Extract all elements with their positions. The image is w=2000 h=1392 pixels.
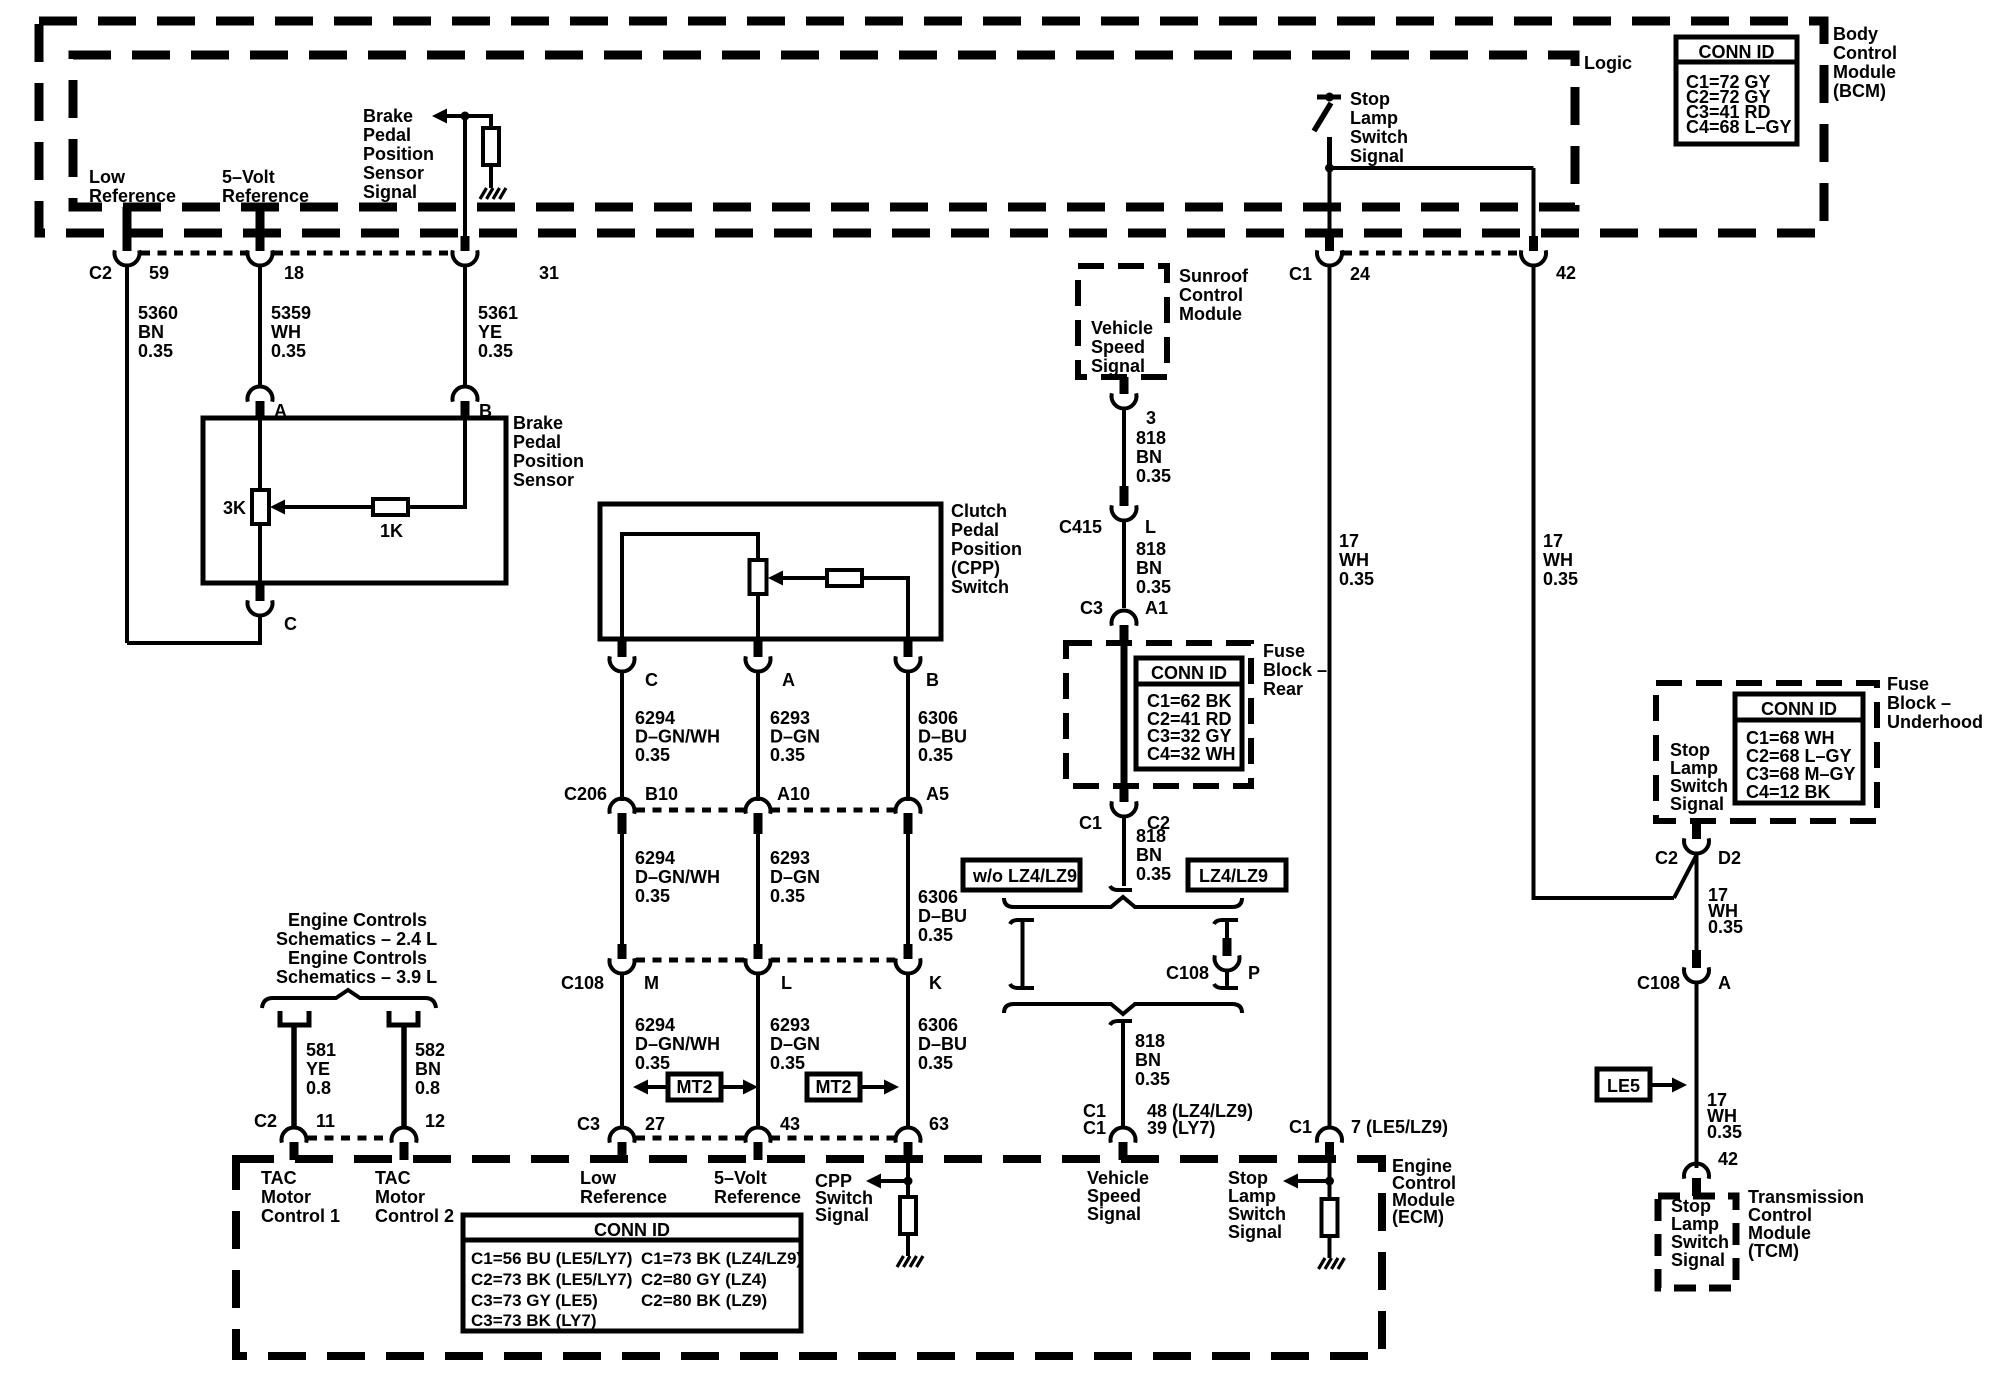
svg-text:1K: 1K — [380, 521, 403, 541]
svg-text:C1=68 WH: C1=68 WH — [1746, 728, 1835, 748]
wire: pin A to 3K pot top — [258, 418, 262, 490]
connector: BPP sensor pin B — [461, 401, 470, 418]
arrow: CPP Switch Signal (points left) — [866, 1174, 881, 1189]
module box: Engine Control Module (ECM), dashed outline — [236, 1159, 1382, 1356]
connector: CPP switch pin B — [904, 639, 913, 657]
svg-text:818: 818 — [1135, 1031, 1165, 1051]
svg-text:6294: 6294 — [635, 848, 675, 868]
svg-text:Fuse: Fuse — [1263, 641, 1305, 661]
svg-text:M: M — [644, 973, 659, 993]
wire end serif above option brace — [1110, 886, 1132, 890]
svg-text:Reference: Reference — [714, 1187, 801, 1207]
resistor: CPP switch internal — [827, 570, 862, 586]
wire: branch down to BCM pin 42 — [1532, 168, 1536, 238]
svg-text:Logic: Logic — [1584, 53, 1632, 73]
svg-text:Position: Position — [513, 451, 584, 471]
connector: TCM pin 42 — [1692, 1178, 1701, 1196]
connector line: C108 (dotted) — [636, 958, 745, 963]
wire: circuit 17 WH from BCM 42, elbow — [1534, 265, 1675, 898]
svg-text:5359: 5359 — [271, 303, 311, 323]
module box: Transmission Control Module (TCM), dashed outline — [1658, 1196, 1736, 1288]
svg-text:Module: Module — [1833, 62, 1896, 82]
svg-text:Rear: Rear — [1263, 679, 1303, 699]
connector line: ECM C3 (dotted) 2 — [771, 1136, 895, 1141]
svg-text:0.35: 0.35 — [1708, 917, 1743, 937]
svg-text:(BCM): (BCM) — [1833, 81, 1886, 101]
wire: 3K pot bottom to pin C — [258, 524, 262, 583]
svg-text:Brake: Brake — [363, 106, 413, 126]
svg-text:43: 43 — [780, 1114, 800, 1134]
connector line: BCM C2 (dotted) seg2 — [274, 251, 451, 256]
connector line: C206 (dotted) — [636, 808, 745, 813]
svg-text:63: 63 — [929, 1114, 949, 1134]
svg-text:0.35: 0.35 — [770, 745, 805, 765]
svg-text:0.35: 0.35 — [1136, 577, 1171, 597]
svg-text:C2=80 GY (LZ4): C2=80 GY (LZ4) — [641, 1270, 767, 1289]
svg-text:LZ4/LZ9: LZ4/LZ9 — [1199, 866, 1268, 886]
svg-text:D–GN/WH: D–GN/WH — [635, 727, 720, 747]
svg-text:(TCM): (TCM) — [1748, 1241, 1799, 1261]
brace: schematics reference selector — [262, 990, 436, 1008]
svg-text:Signal: Signal — [363, 182, 417, 202]
svg-text:0.35: 0.35 — [1707, 1122, 1742, 1142]
svg-text:Brake: Brake — [513, 413, 563, 433]
svg-text:42: 42 — [1718, 1149, 1738, 1169]
svg-text:LE5: LE5 — [1607, 1076, 1640, 1096]
svg-text:Body: Body — [1833, 24, 1878, 44]
svg-text:Switch: Switch — [1670, 776, 1728, 796]
svg-text:C1=56 BU (LE5/LY7): C1=56 BU (LE5/LY7) — [471, 1249, 632, 1268]
wire: circuit 6293 seg2 — [756, 834, 760, 949]
svg-text:Position: Position — [951, 539, 1022, 559]
svg-text:5361: 5361 — [478, 303, 518, 323]
svg-text:Clutch: Clutch — [951, 501, 1007, 521]
svg-text:3K: 3K — [223, 498, 246, 518]
svg-text:Stop: Stop — [1228, 1168, 1268, 1188]
svg-text:0.35: 0.35 — [770, 886, 805, 906]
wire: CPP resistor to pin B — [862, 578, 908, 639]
svg-text:5–Volt: 5–Volt — [222, 167, 275, 187]
svg-text:6306: 6306 — [918, 708, 958, 728]
svg-text:D–BU: D–BU — [918, 727, 967, 747]
wire: CPP signal node — [881, 1179, 908, 1183]
svg-text:MT2: MT2 — [677, 1077, 713, 1097]
svg-text:D–BU: D–BU — [918, 1034, 967, 1054]
svg-text:818: 818 — [1136, 826, 1166, 846]
potentiometer: CPP switch element — [750, 560, 767, 594]
connector: BCM C2 pin 31 — [461, 236, 470, 251]
svg-text:WH: WH — [1543, 550, 1573, 570]
svg-text:CONN ID: CONN ID — [1761, 699, 1837, 719]
svg-text:Signal: Signal — [1228, 1222, 1282, 1242]
module box: Fuse Block - Underhood, dashed outline — [1656, 683, 1877, 821]
potentiometer 3K: Brake Pedal Position Sensor — [252, 490, 269, 524]
svg-text:Control 2: Control 2 — [375, 1206, 454, 1226]
svg-text:Lamp: Lamp — [1671, 1214, 1719, 1234]
wire: splice diagonal up to C2/D2 — [1674, 854, 1697, 898]
resistor: ECM internal (stop lamp signal) — [1322, 1199, 1338, 1236]
svg-text:C415: C415 — [1059, 517, 1102, 537]
wire: circuit 582 BN (TAC motor control 2) — [401, 1025, 407, 1129]
table: Fuse Block - Underhood CONN ID — [1735, 694, 1863, 803]
wire: through Fuse Block - Rear — [1121, 643, 1128, 786]
svg-text:17: 17 — [1543, 531, 1563, 551]
svg-text:818: 818 — [1136, 539, 1166, 559]
svg-text:D–BU: D–BU — [918, 906, 967, 926]
svg-text:Sensor: Sensor — [363, 163, 424, 183]
connector: C108 pin A — [1692, 950, 1701, 968]
tag box: w/o LZ4/LZ9 — [963, 860, 1080, 890]
svg-text:D–GN/WH: D–GN/WH — [635, 867, 720, 887]
svg-text:WH: WH — [1339, 550, 1369, 570]
svg-text:Signal: Signal — [1671, 1250, 1725, 1270]
svg-text:6294: 6294 — [635, 1015, 675, 1035]
svg-text:Pedal: Pedal — [513, 432, 561, 452]
svg-text:0.35: 0.35 — [918, 1053, 953, 1073]
svg-text:C3=73 BK (LY7): C3=73 BK (LY7) — [471, 1311, 597, 1330]
svg-text:Module: Module — [1748, 1223, 1811, 1243]
tag box: MT2 (on circuit 6306) with arrow — [807, 1074, 899, 1100]
svg-text:Control: Control — [1833, 43, 1897, 63]
svg-text:6293: 6293 — [770, 708, 810, 728]
svg-text:Motor: Motor — [375, 1187, 425, 1207]
svg-text:0.8: 0.8 — [306, 1078, 331, 1098]
svg-text:Fuse: Fuse — [1887, 674, 1929, 694]
svg-text:C3=68 M–GY: C3=68 M–GY — [1746, 764, 1856, 784]
svg-text:B10: B10 — [645, 784, 678, 804]
brace: option split (bottom) — [1004, 1004, 1242, 1014]
wire: circuit 6294 seg3 — [620, 973, 624, 1129]
wire: circuit 5361 YE (pin 31 to BPP B) — [463, 265, 467, 387]
connector line: BCM C2 (dotted) seg1 — [141, 251, 246, 256]
svg-text:Stop: Stop — [1350, 89, 1390, 109]
table: BCM CONN ID — [1676, 37, 1797, 144]
svg-text:CONN ID: CONN ID — [1151, 663, 1227, 683]
connector: ECM C3 pin 43 — [754, 1142, 763, 1160]
connector line: ECM C3 (dotted) — [636, 1136, 745, 1141]
svg-text:0.35: 0.35 — [635, 886, 670, 906]
svg-text:BN: BN — [415, 1059, 441, 1079]
arrow: CPP pot wiper (points left into pot) — [768, 571, 783, 586]
wire: circuit 5360 BN (pin 59 to BPP C) — [125, 265, 129, 643]
connector: ECM C1 pin 7 — [1325, 1142, 1334, 1160]
svg-text:Schematics – 2.4 L: Schematics – 2.4 L — [276, 929, 437, 949]
wire: circuit 17 WH seg5 — [1695, 853, 1699, 952]
connector: CPP switch pin C — [618, 639, 627, 657]
wire: circuit 818 BN seg4 — [1121, 1021, 1125, 1129]
svg-text:5–Volt: 5–Volt — [714, 1168, 767, 1188]
svg-text:3: 3 — [1146, 408, 1156, 428]
connector line: BCM C1 (dotted) — [1343, 251, 1520, 256]
svg-text:24: 24 — [1350, 264, 1370, 284]
svg-text:C2: C2 — [1655, 848, 1678, 868]
wire: circuit 6293 seg1 — [756, 671, 760, 801]
svg-text:B: B — [926, 670, 939, 690]
svg-text:Position: Position — [363, 144, 434, 164]
svg-text:C3=73 GY (LE5): C3=73 GY (LE5) — [471, 1291, 598, 1310]
connector: C108 pin L — [754, 944, 763, 959]
svg-text:C: C — [645, 670, 658, 690]
resistor: ECM internal (CPP switch signal) — [900, 1197, 916, 1234]
svg-text:Low: Low — [89, 167, 126, 187]
connector: fuse block rear C1 pin C2 — [1120, 786, 1129, 802]
svg-text:L: L — [781, 973, 792, 993]
svg-text:D–GN: D–GN — [770, 1034, 820, 1054]
svg-text:Sensor: Sensor — [513, 470, 574, 490]
connector: BCM C1 pin 42 — [1529, 236, 1538, 251]
connector: ECM C2 pin 11 — [290, 1142, 299, 1160]
svg-text:Pedal: Pedal — [363, 125, 411, 145]
junction: CPP signal node on pin 63 wire — [904, 1177, 913, 1186]
wire start serif below option brace — [1110, 1021, 1132, 1025]
svg-text:Signal: Signal — [815, 1205, 869, 1225]
svg-text:818: 818 — [1136, 428, 1166, 448]
svg-text:Block –: Block – — [1263, 660, 1327, 680]
svg-text:BN: BN — [1136, 558, 1162, 578]
svg-text:11: 11 — [316, 1111, 335, 1131]
wire: circuit 17 WH seg6 — [1695, 982, 1699, 1168]
svg-text:Control 1: Control 1 — [261, 1206, 340, 1226]
svg-text:CONN ID: CONN ID — [594, 1220, 670, 1240]
svg-text:Lamp: Lamp — [1350, 108, 1398, 128]
open circuit stub: w/o LZ4/LZ9 branch (no connection) — [1010, 920, 1034, 988]
svg-text:Signal: Signal — [1091, 356, 1145, 376]
wire: pin 63 into ECM — [906, 1160, 910, 1197]
svg-text:D2: D2 — [1718, 848, 1741, 868]
svg-text:WH: WH — [271, 322, 301, 342]
arrow: Brake Pedal Position Sensor Signal (points left) — [432, 109, 447, 124]
wire: circuit 818 BN seg3 — [1122, 816, 1126, 886]
wire: circuit 6306 seg3 — [906, 973, 910, 1129]
svg-text:Engine Controls: Engine Controls — [288, 948, 427, 968]
svg-text:Motor: Motor — [261, 1187, 311, 1207]
wire: circuit 818 BN seg2 — [1122, 520, 1126, 608]
svg-text:YE: YE — [478, 322, 502, 342]
table: Fuse Block - Rear CONN ID — [1136, 658, 1242, 769]
tag box: LZ4/LZ9 — [1188, 860, 1286, 890]
module box: Body Control Module (BCM), dashed outline — [39, 21, 1824, 233]
svg-text:0.35: 0.35 — [478, 341, 513, 361]
arrow: Stop Lamp Switch Signal at ECM (points left) — [1283, 1174, 1298, 1189]
svg-text:w/o LZ4/LZ9: w/o LZ4/LZ9 — [972, 866, 1077, 886]
svg-text:C2=80 BK (LZ9): C2=80 BK (LZ9) — [641, 1291, 767, 1310]
table: ECM CONN ID — [463, 1215, 802, 1331]
svg-text:582: 582 — [415, 1040, 445, 1060]
svg-text:Switch: Switch — [951, 577, 1009, 597]
svg-text:Stop: Stop — [1671, 1196, 1711, 1216]
svg-text:Transmission: Transmission — [1748, 1187, 1864, 1207]
svg-text:Signal: Signal — [1087, 1204, 1141, 1224]
ground: ECM internal (stop lamp) — [1319, 1258, 1345, 1269]
svg-text:A5: A5 — [926, 784, 949, 804]
connector: ECM C3 pin 27 — [618, 1142, 627, 1160]
svg-text:C4=32 WH: C4=32 WH — [1147, 744, 1236, 764]
svg-text:Lamp: Lamp — [1228, 1186, 1276, 1206]
svg-text:Module: Module — [1179, 304, 1242, 324]
svg-text:7 (LE5/LZ9): 7 (LE5/LZ9) — [1351, 1117, 1448, 1137]
svg-text:0.35: 0.35 — [271, 341, 306, 361]
svg-text:6293: 6293 — [770, 848, 810, 868]
svg-text:Reference: Reference — [580, 1187, 667, 1207]
svg-text:Switch: Switch — [1671, 1232, 1729, 1252]
svg-text:Speed: Speed — [1087, 1186, 1141, 1206]
connector: sunroof module pin 3 — [1120, 377, 1129, 394]
wire: junction to BCM pin 42 branch — [1330, 166, 1534, 170]
component box: Brake Pedal Position Sensor — [203, 418, 506, 583]
svg-text:Lamp: Lamp — [1670, 758, 1718, 778]
wire: stop lamp switch to junction — [1327, 137, 1332, 168]
svg-text:C4=68 L–GY: C4=68 L–GY — [1686, 117, 1792, 137]
connector: C415 pin L — [1120, 486, 1129, 506]
tag box: LE5 with arrow — [1597, 1069, 1687, 1100]
svg-text:31: 31 — [539, 263, 559, 283]
submodule box: Logic (inside BCM), dashed outline — [73, 55, 1575, 207]
svg-text:TAC: TAC — [375, 1168, 411, 1188]
connector: C108 pin M — [618, 944, 627, 959]
brace: option split (top) — [1004, 897, 1242, 907]
svg-text:C1: C1 — [1079, 813, 1102, 833]
connector: ECM C3 pin 63 — [904, 1142, 913, 1160]
svg-text:5360: 5360 — [138, 303, 178, 323]
connector: ECM C1 pin 48/39 (vehicle speed) — [1119, 1142, 1128, 1160]
module box: Sunroof Control Module, dashed outline — [1078, 266, 1167, 377]
svg-text:Reference: Reference — [222, 186, 309, 206]
svg-text:Stop: Stop — [1670, 740, 1710, 760]
resistor 1K: Brake Pedal Position Sensor — [373, 499, 408, 515]
off-page connector: TAC Motor Control 2 continuation — [389, 1011, 418, 1025]
svg-text:C1=73 BK (LZ4/LZ9): C1=73 BK (LZ4/LZ9) — [641, 1249, 802, 1268]
wire: circuit 6306 seg2 — [906, 834, 910, 949]
svg-text:6306: 6306 — [918, 887, 958, 907]
connector: BCM C1 pin 24 — [1325, 236, 1334, 251]
svg-text:42: 42 — [1556, 263, 1576, 283]
wire: circuit 6293 seg3 — [756, 973, 760, 1129]
svg-text:0.35: 0.35 — [1136, 466, 1171, 486]
svg-text:BN: BN — [1135, 1050, 1161, 1070]
svg-text:0.35: 0.35 — [635, 745, 670, 765]
svg-text:C3: C3 — [577, 1114, 600, 1134]
connector line: C108 (dotted) 2 — [771, 958, 895, 963]
connector: BCM C2 pin 18 — [256, 207, 265, 251]
ground: BCM internal (pin 31 pull-up) — [480, 188, 506, 199]
svg-text:59: 59 — [149, 263, 169, 283]
svg-text:Signal: Signal — [1350, 146, 1404, 166]
svg-text:12: 12 — [425, 1111, 445, 1131]
svg-text:BN: BN — [1136, 447, 1162, 467]
svg-text:6293: 6293 — [770, 1015, 810, 1035]
svg-text:Speed: Speed — [1091, 337, 1145, 357]
svg-text:Low: Low — [580, 1168, 617, 1188]
svg-text:0.35: 0.35 — [138, 341, 173, 361]
svg-text:Pedal: Pedal — [951, 520, 999, 540]
resistor: BCM internal pull-up (pin 31) — [483, 128, 499, 165]
svg-text:0.35: 0.35 — [918, 745, 953, 765]
svg-text:C2: C2 — [89, 263, 112, 283]
svg-text:Sunroof: Sunroof — [1179, 266, 1249, 286]
svg-text:17: 17 — [1339, 531, 1359, 551]
svg-text:C108: C108 — [561, 973, 604, 993]
svg-text:39 (LY7): 39 (LY7) — [1147, 1118, 1215, 1138]
svg-text:CONN ID: CONN ID — [1699, 42, 1775, 62]
svg-text:0.35: 0.35 — [770, 1053, 805, 1073]
tag box: MT2 (between circuits 6294 and 6293) with arrows — [633, 1074, 758, 1100]
wire: pin31 internal drop — [463, 116, 467, 238]
svg-text:6294: 6294 — [635, 708, 675, 728]
connector: C206 pin A5 — [904, 813, 913, 834]
connector: C108 pin K — [904, 944, 913, 959]
svg-text:K: K — [929, 973, 942, 993]
svg-text:C: C — [284, 614, 297, 634]
svg-text:0.35: 0.35 — [1135, 1069, 1170, 1089]
svg-text:Control: Control — [1179, 285, 1243, 305]
wire: BPP C joins circuit 5360 — [127, 615, 260, 643]
ground: ECM internal (CPP) — [897, 1256, 923, 1267]
svg-text:YE: YE — [306, 1059, 330, 1079]
wire: LZ4/LZ9 branch lower — [1225, 970, 1229, 988]
junction: stop lamp switch signal node — [1325, 164, 1334, 173]
svg-text:A10: A10 — [777, 784, 810, 804]
svg-text:C1: C1 — [1289, 264, 1312, 284]
svg-text:C2=68 L–GY: C2=68 L–GY — [1746, 746, 1852, 766]
svg-text:(ECM): (ECM) — [1392, 1207, 1444, 1227]
svg-text:581: 581 — [306, 1040, 336, 1060]
svg-text:Reference: Reference — [89, 186, 176, 206]
wire: circuit 581 YE (TAC motor control 1) — [291, 1025, 297, 1129]
wire: resistor to ground — [489, 165, 493, 188]
wire: junction down to BCM pin 24 — [1328, 168, 1332, 238]
svg-text:6306: 6306 — [918, 1015, 958, 1035]
svg-text:0.8: 0.8 — [415, 1078, 440, 1098]
connector: ECM C2 pin 12 — [400, 1142, 409, 1160]
connector: BCM C2 pin 59 — [123, 207, 132, 251]
wire: circuit 17 WH seg (BCM 24 to ECM) — [1328, 265, 1332, 1129]
connector: CPP switch pin A — [754, 639, 763, 657]
svg-text:18: 18 — [284, 263, 304, 283]
module box: Fuse Block - Rear, dashed outline — [1066, 643, 1251, 786]
svg-text:Schematics – 3.9 L: Schematics – 3.9 L — [276, 967, 437, 987]
connector line: C206 (dotted) 2 — [771, 808, 895, 813]
wire: ECM stop lamp resistor to ground — [1328, 1236, 1332, 1258]
junction: stop lamp node on pin 7 wire — [1325, 1177, 1334, 1186]
connector: C206 pin A10 — [754, 813, 763, 834]
svg-text:C3=32 GY: C3=32 GY — [1147, 726, 1232, 746]
connector: BPP sensor pin A — [256, 401, 265, 418]
junction: node on pin31 wire — [461, 112, 470, 121]
svg-text:TAC: TAC — [261, 1168, 297, 1188]
svg-text:0.35: 0.35 — [1543, 569, 1578, 589]
wire: circuit 5359 WH (pin 18 to BPP A) — [258, 265, 262, 387]
svg-text:BN: BN — [138, 322, 164, 342]
wire: BCM pin31 node to resistor — [447, 116, 491, 128]
svg-text:Switch: Switch — [1350, 127, 1408, 147]
wire: wiper to 1K resistor — [285, 505, 373, 509]
svg-text:C2=73 BK (LE5/LY7): C2=73 BK (LE5/LY7) — [471, 1270, 632, 1289]
svg-text:0.35: 0.35 — [635, 1053, 670, 1073]
svg-text:Control: Control — [1748, 1205, 1812, 1225]
connector: fuse block underhood C2 pin D2 — [1692, 821, 1701, 839]
svg-text:D–GN: D–GN — [770, 727, 820, 747]
wire: circuit 6294 seg1 — [620, 671, 624, 801]
arrow: 3K pot wiper (points left into pot) — [270, 500, 285, 515]
switch: Stop Lamp Switch (inside BCM Logic) — [1314, 93, 1341, 132]
svg-text:C2: C2 — [254, 1111, 277, 1131]
svg-text:C1: C1 — [1289, 1117, 1312, 1137]
svg-text:Block –: Block – — [1887, 693, 1951, 713]
svg-text:Underhood: Underhood — [1887, 712, 1983, 732]
svg-text:C108: C108 — [1166, 963, 1209, 983]
connector: C206 pin B10 — [618, 813, 627, 834]
wire: ECM CPP resistor to ground — [906, 1234, 910, 1256]
